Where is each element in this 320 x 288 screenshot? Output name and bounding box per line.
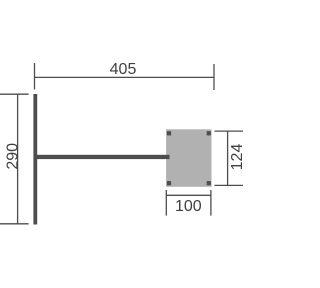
svg-text:100: 100 xyxy=(175,198,202,215)
svg-text:124: 124 xyxy=(229,144,246,171)
svg-text:405: 405 xyxy=(110,61,137,78)
svg-text:290: 290 xyxy=(4,143,21,170)
